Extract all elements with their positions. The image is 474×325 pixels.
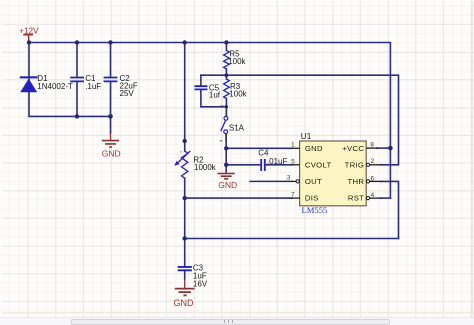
wire bottom horizontal to THR loop (185, 238, 399, 240)
node rail-C1 (75, 40, 79, 44)
svg-text:.1uF: .1uF (85, 82, 101, 91)
wire THR loop (381, 181, 399, 238)
svg-text:1000k: 1000k (194, 163, 217, 172)
node S1A-pin1 (224, 146, 228, 150)
svg-text:.01uF: .01uF (267, 157, 288, 166)
svg-text:7: 7 (291, 191, 295, 198)
diode D1 1N4002-T (20, 74, 73, 92)
svg-text:6: 6 (371, 175, 375, 182)
node rail-C2 (108, 40, 112, 44)
U1 pin 6 THR (347, 175, 382, 186)
svg-text:25V: 25V (120, 89, 135, 98)
capacitor C4 .01uF (258, 149, 287, 172)
node R2 wiper (183, 139, 187, 143)
wire pin1 node down to C4 node (226, 148, 291, 171)
svg-text:S1A: S1A (229, 124, 245, 133)
ground GND middle (218, 171, 238, 190)
wire C2 branch (110, 43, 112, 133)
node R3-C5-S1A (225, 105, 228, 108)
U1 pin 4 RST (348, 192, 382, 203)
wire left branch down through D1 to bottom rail (29, 43, 111, 117)
svg-text:5: 5 (291, 159, 295, 166)
svg-text:3: 3 (287, 175, 291, 182)
svg-text:16V: 16V (193, 280, 208, 289)
svg-text:4: 4 (371, 192, 375, 199)
node rail-D1 (27, 40, 31, 44)
wire OUT stub (250, 180, 291, 182)
wire C5 branch (201, 75, 227, 107)
svg-text:LM555: LM555 (302, 205, 328, 215)
resistor R5 100k (224, 50, 247, 69)
svg-text:THR: THR (347, 177, 364, 186)
wire RST (381, 197, 390, 199)
svg-text:GND: GND (174, 298, 195, 308)
capacitor C1 .1uF (70, 74, 101, 91)
svg-text:100k: 100k (229, 90, 247, 99)
U1 pin 8 +VCC (342, 142, 378, 153)
svg-text:8: 8 (370, 142, 374, 149)
svg-text:GND: GND (305, 144, 323, 153)
svg-text:100k: 100k (228, 57, 246, 66)
U1 pin 5 CVOLT (291, 159, 332, 170)
capacitor C3 1uF 16V (178, 263, 208, 288)
svg-text:+VCC: +VCC (342, 144, 364, 153)
node bottom-C2-GND (108, 114, 113, 119)
U1 pin 1 GND (291, 141, 324, 153)
svg-text:1: 1 (291, 141, 295, 148)
U1 pin 2 TRIG (345, 158, 382, 169)
svg-text:RST: RST (348, 194, 364, 203)
scrollbar (0, 317, 474, 325)
resistor R2 1000k potentiometer (174, 151, 217, 178)
svg-text:DIS: DIS (305, 194, 319, 203)
switch S1A (220, 106, 245, 141)
wire C1 branch (76, 43, 78, 117)
svg-text:U1: U1 (301, 132, 312, 141)
svg-text:1N4002-T: 1N4002-T (37, 82, 73, 91)
wire R5 column top (225, 43, 227, 76)
node R2-DIS (183, 196, 187, 200)
wire +12V rail (29, 43, 390, 199)
ground GND bottom (174, 279, 195, 308)
power +12V (19, 26, 39, 42)
node C4-GND (224, 163, 228, 167)
capacitor C5 1uf (195, 83, 221, 99)
op-amp U1 LM555 body (300, 132, 367, 215)
node bottom-C1 (75, 114, 79, 118)
U1 pin 7 DIS (291, 191, 319, 202)
svg-text:GND: GND (102, 149, 121, 159)
svg-text:CVOLT: CVOLT (305, 160, 332, 169)
wire R2 column (184, 43, 186, 280)
capacitor C2 22uF 25V (104, 74, 138, 98)
wire R3 to switch (225, 75, 227, 116)
wire switch to pin1 node (226, 133, 291, 148)
svg-text:TRIG: TRIG (345, 160, 365, 169)
svg-text:1uf: 1uf (209, 91, 221, 100)
resistor R3 100k (224, 79, 248, 99)
svg-text:OUT: OUT (305, 177, 322, 186)
ground GND under C2 (102, 133, 121, 159)
node rail-R5 (224, 40, 228, 44)
U1 pin 3 OUT (287, 175, 322, 186)
svg-text:+12V: +12V (19, 26, 39, 35)
node rail-R2 (183, 40, 187, 44)
svg-text:GND: GND (218, 180, 237, 190)
node R5-R3 (225, 73, 229, 77)
svg-text:2: 2 (371, 158, 375, 165)
wire VCC (377, 147, 390, 149)
wire DIS to R2 column (185, 197, 292, 199)
node R2-C3-THR (183, 236, 187, 240)
node VCC-RST (388, 146, 393, 151)
wire node row to TRIG (201, 75, 399, 165)
